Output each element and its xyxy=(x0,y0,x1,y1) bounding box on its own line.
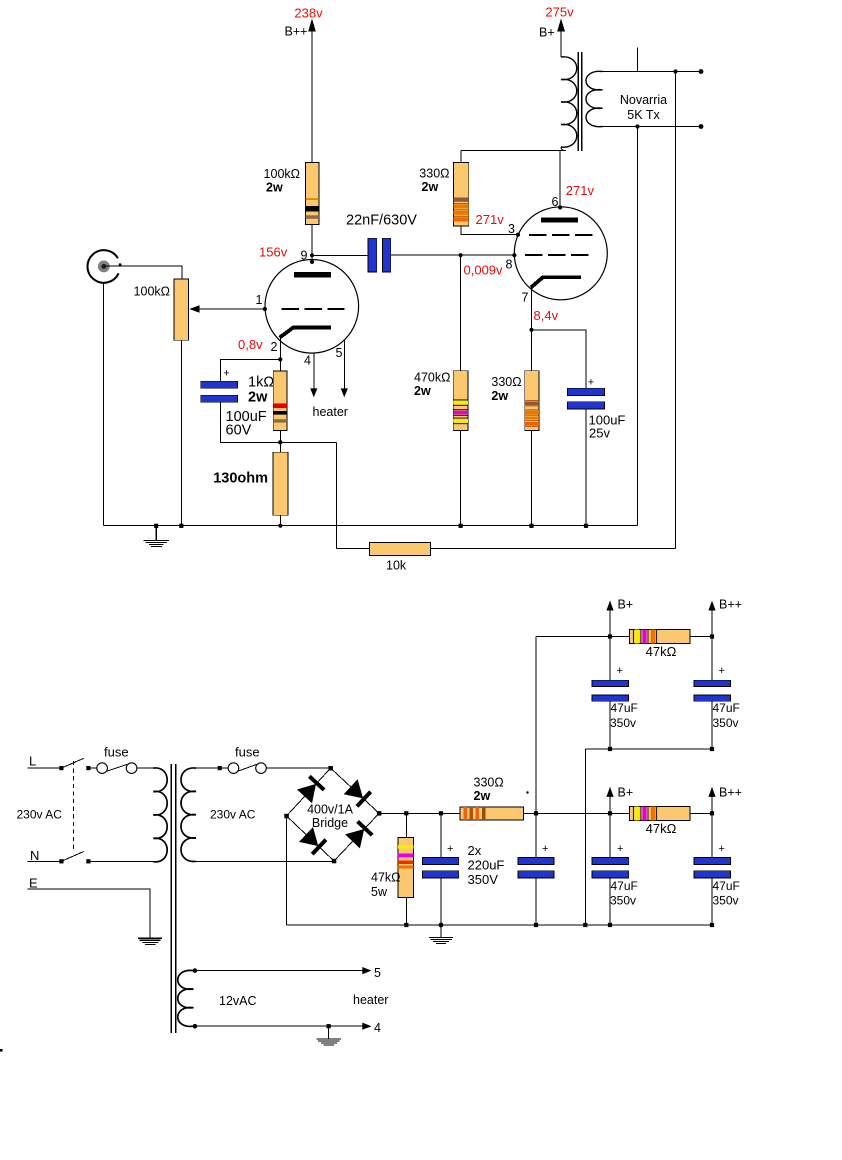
svg-text:130ohm: 130ohm xyxy=(213,471,268,487)
svg-text:+: + xyxy=(447,843,453,855)
svg-text:E: E xyxy=(29,876,38,891)
svg-text:2w: 2w xyxy=(414,384,431,398)
svg-text:271v: 271v xyxy=(566,183,595,198)
svg-text:5w: 5w xyxy=(371,885,388,899)
svg-text:B++: B++ xyxy=(285,25,308,39)
svg-text:12vAC: 12vAC xyxy=(219,994,257,1008)
svg-text:0,8v: 0,8v xyxy=(238,337,263,352)
svg-text:fuse: fuse xyxy=(235,745,260,760)
svg-text:+: + xyxy=(542,843,548,855)
svg-text:4: 4 xyxy=(374,1021,381,1035)
svg-text:2: 2 xyxy=(271,340,278,354)
svg-text:22nF/630V: 22nF/630V xyxy=(346,213,417,229)
svg-text:+: + xyxy=(719,843,725,855)
svg-text:N: N xyxy=(30,848,39,863)
svg-text:330Ω: 330Ω xyxy=(419,167,449,181)
svg-text:2w: 2w xyxy=(266,181,283,195)
svg-text:350v: 350v xyxy=(610,716,636,730)
svg-text:B+: B+ xyxy=(618,598,634,612)
svg-text:230v AC: 230v AC xyxy=(210,808,256,822)
svg-text:470kΩ: 470kΩ xyxy=(414,371,450,385)
svg-text:238v: 238v xyxy=(294,6,323,21)
svg-text:330Ω: 330Ω xyxy=(491,375,521,389)
svg-text:+: + xyxy=(719,665,725,677)
svg-text:350v: 350v xyxy=(713,894,739,908)
svg-text:5K Tx: 5K Tx xyxy=(627,108,660,122)
svg-text:2w: 2w xyxy=(248,390,268,406)
svg-text:1: 1 xyxy=(256,293,263,307)
svg-text:271v: 271v xyxy=(476,212,505,227)
svg-text:+: + xyxy=(617,665,623,677)
svg-text:B++: B++ xyxy=(719,786,742,800)
svg-text:+: + xyxy=(223,368,229,380)
svg-text:5: 5 xyxy=(336,346,343,360)
svg-text:1kΩ: 1kΩ xyxy=(248,375,274,391)
svg-text:2x: 2x xyxy=(468,843,482,858)
svg-text:fuse: fuse xyxy=(104,745,129,760)
svg-text:330Ω: 330Ω xyxy=(474,776,504,790)
svg-text:6: 6 xyxy=(552,195,559,209)
svg-text:L: L xyxy=(29,754,36,769)
svg-text:heater: heater xyxy=(353,993,388,1007)
svg-text:3: 3 xyxy=(508,222,515,236)
svg-text:8,4v: 8,4v xyxy=(534,308,559,323)
svg-text:100kΩ: 100kΩ xyxy=(264,167,300,181)
svg-text:47kΩ: 47kΩ xyxy=(646,821,677,836)
svg-text:350v: 350v xyxy=(610,894,636,908)
svg-text:8: 8 xyxy=(506,258,513,272)
svg-text:0,009v: 0,009v xyxy=(464,262,504,277)
svg-text:275v: 275v xyxy=(545,5,574,20)
svg-text:47uF: 47uF xyxy=(611,879,638,893)
svg-text:+: + xyxy=(588,377,594,389)
svg-text:10k: 10k xyxy=(386,559,407,573)
svg-text:220uF: 220uF xyxy=(468,858,505,873)
svg-text:4: 4 xyxy=(304,354,311,368)
svg-text:2w: 2w xyxy=(491,389,508,403)
svg-text:2w: 2w xyxy=(422,180,439,194)
svg-text:350v: 350v xyxy=(713,716,739,730)
svg-text:400v/1A: 400v/1A xyxy=(307,803,354,817)
svg-text:heater: heater xyxy=(313,405,348,419)
svg-text:47kΩ: 47kΩ xyxy=(646,644,677,659)
svg-text:156v: 156v xyxy=(259,245,288,260)
svg-text:Bridge: Bridge xyxy=(312,816,348,830)
svg-text:Novarria: Novarria xyxy=(620,93,667,107)
svg-text:47uF: 47uF xyxy=(611,701,638,715)
svg-text:7: 7 xyxy=(522,291,529,305)
svg-text:100kΩ: 100kΩ xyxy=(134,285,170,299)
svg-text:47uF: 47uF xyxy=(713,701,740,715)
svg-text:+: + xyxy=(617,843,623,855)
svg-text:230v AC: 230v AC xyxy=(17,808,63,822)
svg-text:60V: 60V xyxy=(226,423,252,439)
svg-text:47kΩ: 47kΩ xyxy=(371,871,401,885)
svg-text:47uF: 47uF xyxy=(713,879,740,893)
svg-text:350V: 350V xyxy=(468,872,499,887)
svg-text:25v: 25v xyxy=(589,426,610,441)
svg-text:B++: B++ xyxy=(719,598,742,612)
svg-text:2w: 2w xyxy=(474,789,491,803)
svg-text:B+: B+ xyxy=(539,26,555,40)
svg-text:5: 5 xyxy=(374,966,381,980)
svg-text:B+: B+ xyxy=(618,786,634,800)
